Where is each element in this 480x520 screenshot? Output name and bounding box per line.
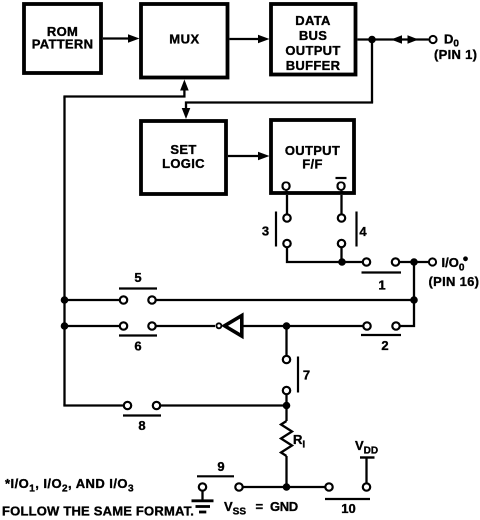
switch 10 xyxy=(325,483,370,516)
VDD terminal xyxy=(360,458,375,483)
switch 4 xyxy=(338,212,368,248)
resistor RI xyxy=(281,406,292,488)
svg-text:10: 10 xyxy=(341,501,355,516)
wire SET LOGIC to OUTPUT F/F with arrowhead xyxy=(228,152,270,161)
switch 8 xyxy=(123,402,161,433)
wire switch 1 to I/O terminal xyxy=(400,261,429,263)
inverter triangle xyxy=(225,316,242,337)
svg-text:BUFFER: BUFFER xyxy=(286,58,341,73)
label I/O0* (PIN 16) xyxy=(429,255,480,289)
wire feedback from D0 junction down xyxy=(371,40,373,103)
wire feedback horizontal to SET LOGIC xyxy=(186,103,373,111)
switch 7 xyxy=(283,356,310,394)
wire feedback horizontal to MUX xyxy=(63,88,184,97)
wire switch3 bottom to node xyxy=(287,248,342,262)
wire switch 5 row left segment xyxy=(63,299,119,301)
terminal circle I/O0 (pin 16) xyxy=(429,258,436,265)
junction dot at x414 switch5 row xyxy=(410,296,418,304)
svg-text:2: 2 xyxy=(381,338,388,353)
svg-text:F/F: F/F xyxy=(302,157,322,172)
svg-text:9: 9 xyxy=(217,459,224,474)
wire MUX to DATA BUS OUTPUT BUFFER with arrowhead xyxy=(230,35,270,44)
switch 9 xyxy=(197,459,243,491)
wire Q-bar output down xyxy=(340,195,342,214)
wire switch 6 row left segment xyxy=(63,325,119,327)
svg-text:5: 5 xyxy=(134,270,141,285)
wire feedback trunk left (vertical x=64.5) xyxy=(63,97,65,406)
junction dot bottom rail resistor xyxy=(283,483,291,491)
junction dot trunk switch6 xyxy=(61,322,69,330)
arrowhead into SET LOGIC top xyxy=(182,108,191,119)
switch 6 xyxy=(119,322,157,353)
svg-text:4: 4 xyxy=(359,224,367,239)
bidirectional arrowheads on D0 line xyxy=(391,35,419,44)
junction dot D0 line xyxy=(368,36,376,44)
wire switch 5 row right segment xyxy=(156,299,414,301)
box MUX xyxy=(141,4,228,78)
wire switch 7 bottom stub xyxy=(285,395,287,406)
junction dot inverter line switch7 xyxy=(283,322,291,330)
box OUTPUT F/F xyxy=(271,120,354,193)
label D0 (PIN 1) xyxy=(434,32,477,63)
inverter bubble xyxy=(216,323,221,328)
wire bottom rail switch9 to switch10 xyxy=(244,486,325,488)
svg-text:=: = xyxy=(256,499,264,514)
switch 5 xyxy=(119,270,157,304)
junction dot node below switch 4 xyxy=(338,258,346,266)
svg-text:(PIN 1): (PIN 1) xyxy=(434,47,477,62)
svg-text:OUTPUT: OUTPUT xyxy=(285,43,340,58)
svg-text:SET: SET xyxy=(170,142,196,157)
box DATA BUS OUTPUT BUFFER xyxy=(271,4,356,75)
pin label Q-bar xyxy=(336,178,347,194)
svg-text:BUS: BUS xyxy=(299,28,327,43)
wire vertical x=414 from I/O node down to switch 2 elbow xyxy=(400,262,414,326)
box SET LOGIC xyxy=(141,121,226,194)
svg-text:PATTERN: PATTERN xyxy=(32,37,94,52)
svg-text:3: 3 xyxy=(262,224,269,239)
junction dot trunk switch5 xyxy=(61,296,69,304)
switch 2 xyxy=(361,322,401,353)
svg-text:MUX: MUX xyxy=(169,32,199,47)
svg-text:7: 7 xyxy=(303,368,310,383)
wire switch 8 to resistor node xyxy=(161,404,287,406)
svg-text:1: 1 xyxy=(378,278,385,293)
arrowhead into MUX bottom xyxy=(180,80,189,91)
terminal circle D0 (pin 1) xyxy=(429,36,436,43)
svg-text:6: 6 xyxy=(134,339,141,354)
switch 1 xyxy=(362,258,402,292)
svg-text:8: 8 xyxy=(138,418,145,433)
wire D0 output line xyxy=(358,38,429,40)
wire Q output down xyxy=(286,195,288,214)
junction dot I/O line xyxy=(410,258,418,266)
svg-text:GND: GND xyxy=(270,499,298,514)
svg-text:Q: Q xyxy=(336,179,346,194)
wire switch 6 to inverter bubble xyxy=(156,325,215,327)
wire switch4 bottom to node xyxy=(340,248,342,262)
svg-text:LOGIC: LOGIC xyxy=(162,156,205,171)
wire switch 8 row from trunk xyxy=(65,404,124,405)
svg-text:(PIN 16): (PIN 16) xyxy=(429,274,480,289)
wire ROM to MUX with arrowhead xyxy=(103,34,140,43)
ground symbol under switch 9 xyxy=(192,492,214,513)
box ROM PATTERN xyxy=(24,4,101,73)
svg-text:FOLLOW THE SAME FORMAT.: FOLLOW THE SAME FORMAT. xyxy=(2,504,194,519)
wire inverter input from right xyxy=(244,325,363,327)
svg-text:DATA: DATA xyxy=(295,13,331,28)
switch 3 xyxy=(262,212,291,248)
svg-text:Q: Q xyxy=(281,179,291,194)
wire switch 7 top stub xyxy=(285,326,287,355)
junction dot resistor top node xyxy=(283,402,291,410)
wire node to switch 1 xyxy=(342,261,362,263)
